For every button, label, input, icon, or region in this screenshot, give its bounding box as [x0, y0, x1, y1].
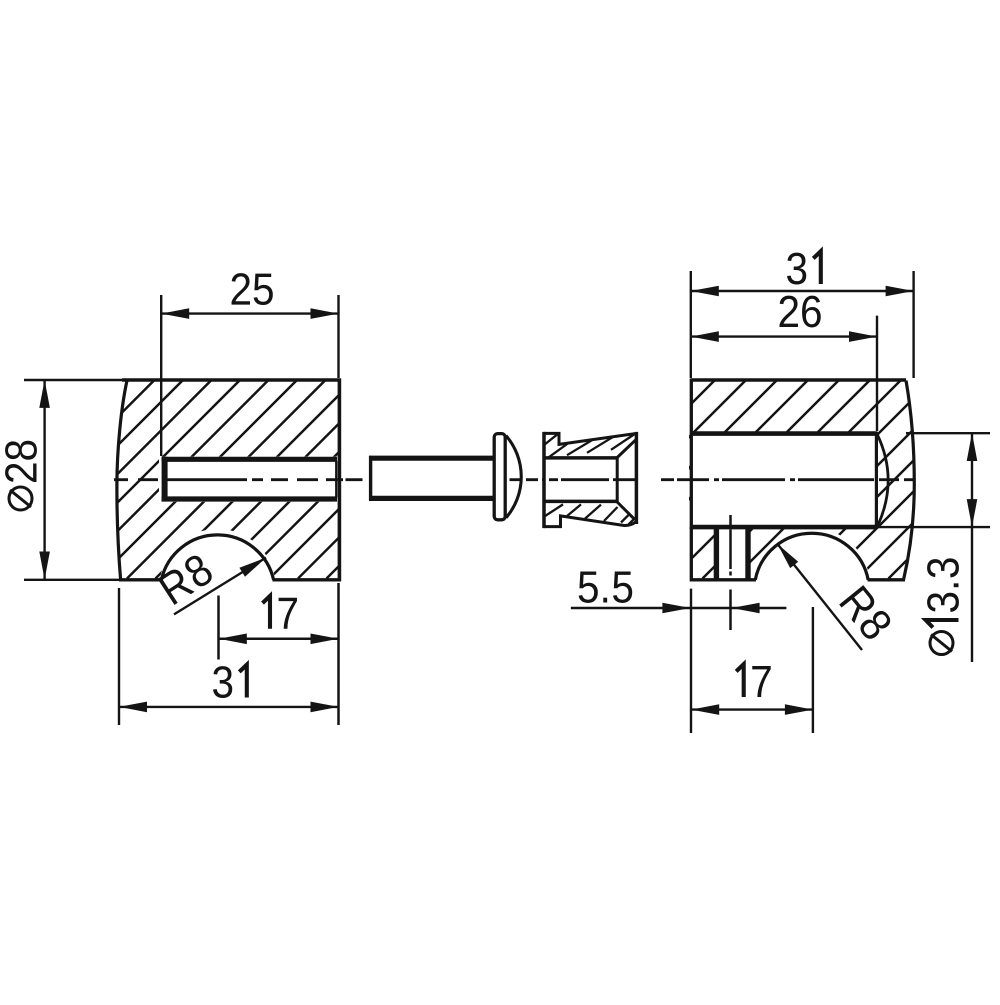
dimension 31 left	[119, 588, 339, 725]
bottom edge left part	[691, 578, 756, 581]
bore bottom line	[691, 525, 877, 530]
outline	[544, 433, 636, 444]
hatch bottom wall	[545, 504, 636, 524]
washer flange	[494, 434, 505, 520]
slot left end cap	[162, 457, 168, 502]
curved left edge	[117, 381, 127, 580]
bore bottom	[544, 500, 617, 504]
dome head	[506, 436, 521, 518]
dimension 5.5	[571, 589, 787, 733]
left face	[542, 432, 546, 528]
arrowhead (17 left)	[311, 634, 339, 645]
left clamp body: outline	[117, 379, 341, 582]
value text 25	[232, 273, 273, 305]
groove right wall	[745, 527, 750, 579]
groove left wall	[714, 527, 719, 579]
dimension 17 right	[691, 607, 813, 733]
value text 17 left	[263, 596, 297, 629]
dimension Ø13.3	[877, 433, 990, 662]
left clamp body: hatching	[0, 379, 526, 579]
arrowhead (31 right)	[691, 286, 719, 297]
dimension 17 left	[219, 583, 339, 725]
arrowhead (Ø13.3)	[967, 433, 978, 461]
R8 label left	[174, 558, 266, 615]
arrowhead (17 right)	[691, 704, 719, 715]
dimension 25	[161, 295, 338, 456]
bottom edge right part	[273, 578, 342, 581]
value text R8 right	[839, 585, 894, 642]
R8 notch arc	[161, 535, 273, 580]
bottom edge right part	[868, 578, 906, 581]
arrowhead (Ø13.3)	[967, 499, 978, 527]
arrowhead (25)	[311, 308, 339, 319]
arrowhead (31 left)	[119, 702, 147, 713]
flare bottom	[617, 502, 635, 520]
arrowhead (Ø28)	[39, 380, 50, 408]
screw	[369, 434, 521, 520]
right edge	[338, 379, 342, 582]
arrowhead (17 right)	[785, 704, 813, 715]
shaft left end	[369, 456, 372, 501]
value text 31 right	[787, 251, 821, 284]
R8 label right	[778, 544, 863, 650]
arrowhead (R8 left)	[239, 558, 266, 577]
arrowhead (26)	[691, 331, 719, 342]
shaft top	[369, 456, 495, 461]
dimension 31 right	[691, 271, 914, 378]
R8 notch arc	[755, 533, 868, 580]
bore top line	[691, 431, 877, 436]
arrowhead (5.5)	[662, 603, 690, 614]
expander nut	[544, 432, 636, 528]
top edge	[122, 378, 341, 381]
bore top	[544, 456, 617, 460]
bulged blind-hole silhouette	[877, 434, 888, 526]
dimension Ø28	[24, 380, 130, 580]
slot right inner end	[335, 461, 337, 497]
centerline through all parts	[114, 478, 915, 481]
value text Ø13.3	[926, 558, 959, 627]
slot (bore) thick top line	[162, 457, 338, 462]
right clamp body: outline	[691, 379, 914, 582]
right face	[635, 432, 639, 524]
left face	[690, 379, 693, 582]
value text 26	[780, 296, 821, 328]
arrowhead (R8 right)	[778, 544, 799, 568]
arrowhead (17 left)	[219, 634, 247, 645]
arrowhead (5.5)	[732, 603, 760, 614]
value text 31 left	[213, 665, 247, 698]
value text 17 right	[736, 664, 770, 697]
right clamp body: hatching	[517, 380, 1000, 579]
bore end	[616, 457, 619, 503]
bore end face	[875, 432, 878, 529]
value text 5.5	[579, 572, 633, 603]
arrowhead (26)	[849, 331, 877, 342]
arrowhead (25)	[161, 308, 189, 319]
shaft bottom	[369, 496, 495, 501]
bottom edge left part	[119, 578, 162, 581]
flare top	[617, 439, 636, 457]
hatch top wall	[545, 434, 635, 458]
groove dashed center line	[729, 515, 732, 630]
top edge	[691, 378, 906, 381]
curved right edge	[904, 381, 915, 580]
arrowhead (31 right)	[886, 286, 914, 297]
arrowhead (Ø28)	[39, 552, 50, 580]
value text R8 left	[157, 552, 215, 605]
value text Ø28	[5, 441, 37, 482]
arrowhead (31 left)	[311, 702, 339, 713]
dimension 26	[691, 316, 877, 431]
slot thick bottom line	[162, 496, 338, 501]
